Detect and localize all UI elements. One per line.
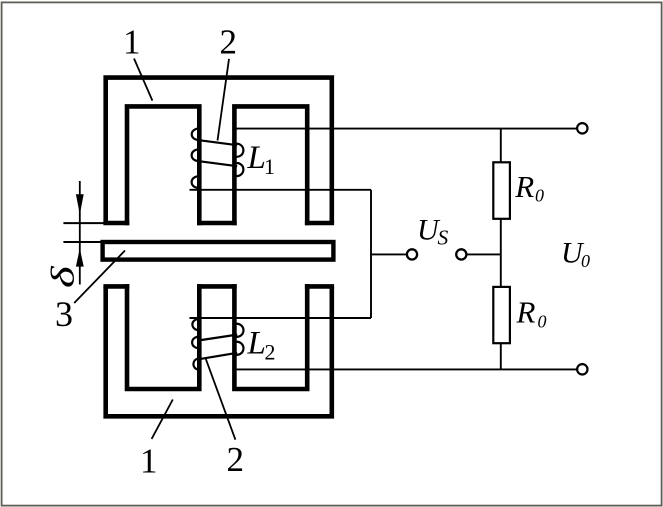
leader for label 2 (bottom) (206, 359, 236, 440)
armature 3 (movable iron bar) (103, 242, 334, 260)
svg-text:1: 1 (123, 23, 141, 62)
dimension arrow (down) (76, 194, 84, 214)
svg-text:3: 3 (55, 294, 73, 334)
core 1 (top E-core) (103, 78, 334, 226)
label L1 (247, 140, 276, 179)
svg-text:2: 2 (227, 440, 245, 479)
gap tick (bottom) (63, 241, 104, 243)
svg-text:1: 1 (140, 442, 158, 481)
core 1 (bottom E-core) (103, 284, 334, 416)
dimension arrow (up) (76, 248, 84, 266)
svg-text:1: 1 (264, 154, 275, 179)
svg-text:R: R (514, 169, 534, 204)
output terminal (bottom) (577, 364, 587, 374)
label R0 (upper) (514, 169, 544, 206)
gap tick (top) (63, 222, 104, 224)
source US terminal (right) (456, 249, 466, 259)
leader for label 3 (74, 251, 125, 304)
svg-text:0: 0 (535, 186, 544, 206)
wire: bracket vertical joining L1 and L2 (370, 190, 372, 318)
inductor L2 (coil on bottom middle leg) (192, 319, 243, 370)
leader for label 2 (top) (218, 59, 230, 141)
air gap dimension line (79, 181, 81, 285)
label U0 (561, 237, 590, 271)
wire: US terminal to resistor junction (467, 253, 501, 255)
svg-text:2: 2 (265, 340, 276, 365)
svg-text:R: R (516, 295, 536, 330)
wire: resistor chain bottom (500, 343, 502, 369)
label US (417, 214, 449, 250)
wire: resistor chain middle (500, 219, 502, 287)
resistor R0 (upper) (493, 162, 510, 219)
leader for label 1 (top) (134, 59, 152, 101)
svg-text:0: 0 (538, 312, 547, 332)
resistor R0 (lower) (493, 287, 510, 343)
leader for label 1 (bottom) (152, 400, 173, 439)
source US terminal (left) (407, 249, 417, 259)
wire: L1 top terminal to output (top) (234, 128, 578, 130)
label R0 (lower) (516, 295, 547, 332)
wire: L1 bottom terminal to right bracket (190, 189, 372, 191)
output terminal (top) (577, 123, 587, 133)
label L2 (247, 326, 276, 365)
wire: L2 top terminal to right bracket (190, 317, 372, 319)
wire: resistor chain top (500, 129, 502, 163)
svg-text:L: L (247, 140, 266, 176)
svg-text:2: 2 (220, 23, 238, 62)
svg-text:δ: δ (44, 265, 81, 288)
svg-text:0: 0 (581, 251, 590, 271)
wire: center tap to US terminal (371, 253, 407, 255)
inductor L1 (coil on top middle leg) (192, 129, 244, 188)
svg-text:L: L (247, 326, 266, 362)
svg-text:S: S (438, 226, 449, 250)
wire: L2 bottom terminal to output (bottom) (236, 368, 578, 370)
